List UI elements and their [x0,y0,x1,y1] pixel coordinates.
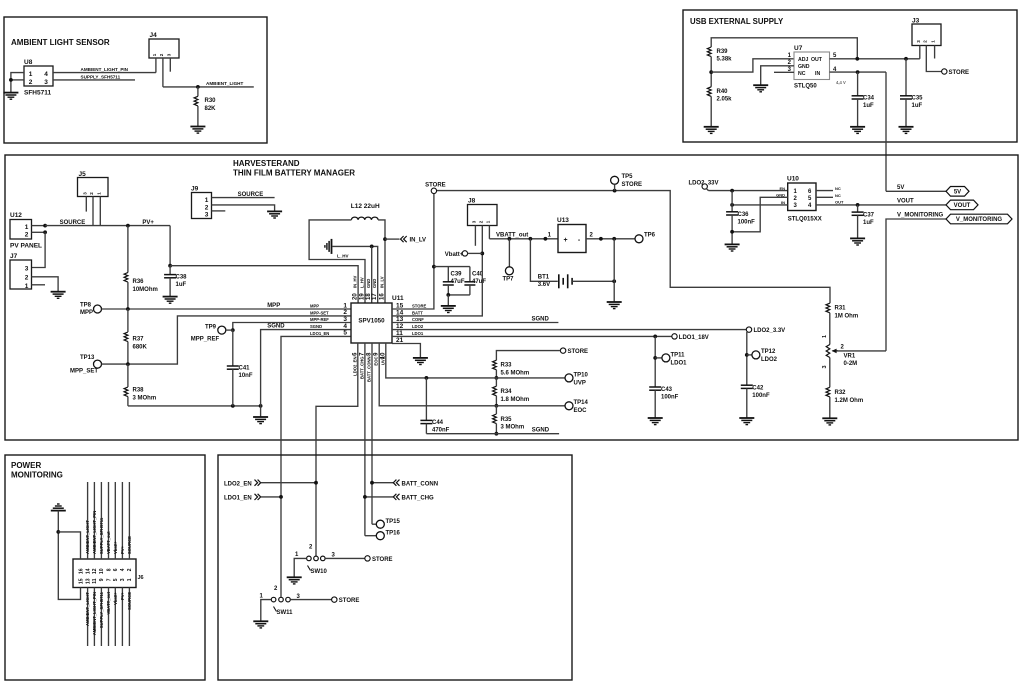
svg-text:BATT_CHG: BATT_CHG [359,357,364,380]
svg-text:LDO2_3.3V: LDO2_3.3V [754,328,786,334]
wire J5 pin1 [99,197,101,226]
svg-text:U12: U12 [10,212,22,219]
svg-text:L_HV: L_HV [337,254,349,259]
junction [508,237,512,241]
svg-text:STORE: STORE [339,598,360,604]
junction [370,245,374,249]
wire net 5V [886,190,946,192]
test point TP7 [508,239,510,267]
wire J8 pin3 stub [474,226,476,246]
svg-text:TP14: TP14 [574,400,589,406]
test point TP5 STORE [611,176,619,184]
junction [599,237,603,241]
capacitor C35 1uF [905,59,907,96]
svg-text:SOURCE: SOURCE [238,192,264,198]
wire SGND rail [128,405,261,407]
svg-text:U11: U11 [392,295,404,302]
svg-text:AMBIENT LIGHT SENSOR: AMBIENT LIGHT SENSOR [11,38,110,47]
svg-text:1uF: 1uF [176,282,187,288]
svg-text:VBATT_out: VBATT_out [106,531,111,554]
svg-text:EOC: EOC [374,357,379,366]
svg-text:16: 16 [78,568,84,574]
test point TP10 / UVP [565,374,573,382]
junction [231,328,235,332]
test point TP6 [635,235,643,243]
wire STORE bus top [437,191,830,304]
wire J7 pin3 to U12 pin2 [32,232,46,267]
ground [850,238,865,245]
svg-text:15: 15 [78,578,84,584]
svg-text:TP16: TP16 [386,530,401,536]
resistor R37 680K [124,332,128,342]
svg-text:5.6 MOhm: 5.6 MOhm [501,370,530,376]
svg-text:2: 2 [25,232,29,239]
svg-text:5.38k: 5.38k [717,57,733,63]
svg-text:EN: EN [779,186,785,191]
wire J3 pin3 [919,46,921,59]
capacitor C41 10nF [232,330,234,366]
svg-text:1uF: 1uF [912,103,923,109]
test point TP16 [365,535,377,537]
capacitor C40 47uF [469,267,471,282]
junction [9,78,13,82]
chevron net IN_LV [385,238,400,240]
svg-text:IN: IN [815,71,820,77]
switch SW11 label [274,607,277,612]
svg-text:PV+: PV+ [120,591,125,600]
wire J3 pin2 to STORE [926,46,941,72]
svg-text:EOC: EOC [574,408,588,414]
junction [126,362,130,366]
wire J9 pin1 net SOURCE [212,197,275,199]
svg-text:SW11: SW11 [277,610,294,616]
svg-text:3: 3 [25,266,29,273]
switch SW10 [307,556,312,561]
svg-text:1: 1 [25,224,29,231]
wire U7 pin5 output to J3 [830,58,920,60]
svg-text:C43: C43 [661,387,673,393]
ground [607,302,622,309]
svg-text:2: 2 [29,79,33,86]
section box: control / switches [218,455,572,680]
svg-text:SGND: SGND [532,316,550,322]
wire net VBATT_out [489,238,558,240]
resistor R35 3 MOhm [493,414,497,424]
ground (rotated) for U11 GND pins [325,239,332,254]
ground [753,85,768,92]
resistor R38 3 MOhm [124,387,128,397]
junction [314,481,318,485]
wire U7 pin3 stub [774,71,794,73]
wire U8 pin1 to ground rail [11,73,24,93]
capacitor C37 1uF [857,205,859,212]
wire U11 pin8 BATT_CONN down [371,343,373,524]
wire U7 pin4 IN [830,71,887,73]
svg-text:SUPPLY_SFH5711: SUPPLY_SFH5711 [99,591,104,628]
svg-text:9: 9 [99,578,105,581]
wire J9 pin2 to ground [212,205,275,212]
svg-text:470nF: 470nF [432,428,450,434]
svg-text:MPP: MPP [310,304,319,309]
wire U11 pin4 SGND [261,330,351,406]
svg-text:1M Ohm: 1M Ohm [835,313,859,319]
svg-text:MPP_REF: MPP_REF [191,337,220,343]
wire U11 pin21 to ground [392,344,420,358]
test point TP15 [372,523,376,525]
svg-text:STORE: STORE [412,304,427,309]
svg-text:3 MOhm: 3 MOhm [133,395,157,401]
net bubble STORE [942,69,947,74]
wire ground branch to pin16 [58,532,80,559]
svg-text:47uF: 47uF [472,279,486,285]
svg-text:HARVESTERAND: HARVESTERAND [233,159,300,168]
svg-text:U8: U8 [24,59,33,66]
svg-text:J9: J9 [191,186,199,193]
wire U7 pin2 GND [761,66,794,85]
svg-text:R39: R39 [717,49,729,55]
svg-text:5V: 5V [954,190,961,196]
svg-text:IN_LV: IN_LV [380,276,385,288]
junction [544,237,548,241]
svg-text:5: 5 [343,330,347,337]
resistor R39 5.38k [707,47,711,57]
svg-text:NC: NC [835,186,841,191]
wire LDO1 down [654,336,656,387]
ground [648,418,663,425]
svg-text:THIN FILM BATTERY MANAGER: THIN FILM BATTERY MANAGER [233,169,355,178]
wire net AMBIENT_LIGHT_PIN [53,72,156,74]
svg-text:BATT_CONN: BATT_CONN [367,357,372,383]
wire net AMBIENT_LIGHT [163,86,254,88]
svg-text:680K: 680K [133,344,148,350]
svg-text:SOURCE: SOURCE [127,536,132,554]
flag V_MONITORING [946,214,1012,224]
junction [56,530,60,534]
svg-text:3.6V: 3.6V [538,282,550,288]
svg-text:LDO2: LDO2 [761,357,778,363]
svg-text:AMBIENT_LIGHT_PIN: AMBIENT_LIGHT_PIN [92,592,97,635]
potentiometer VR1 0-2M [826,345,830,358]
svg-text:R36: R36 [133,279,145,285]
wire STORE to R33 [496,351,560,361]
junction [904,57,908,61]
junction [730,230,734,234]
svg-text:BATT: BATT [412,310,423,315]
wire U10 pin2 GND route [732,197,788,232]
svg-text:4: 4 [120,568,126,571]
svg-text:R31: R31 [835,306,847,312]
svg-text:19: 19 [360,293,366,300]
svg-text:U10: U10 [787,176,799,183]
svg-text:R33: R33 [501,363,513,369]
wire net SOURCE / PV+ [45,225,170,227]
svg-text:MPP_SET: MPP_SET [70,369,98,375]
junction [856,70,860,74]
wire GND pins 17,18 [332,246,378,303]
svg-text:1.2M Ohm: 1.2M Ohm [835,398,864,404]
junction [168,264,172,268]
svg-text:R38: R38 [133,388,145,394]
wire R39/R40 node to U7 pin1 [711,59,794,72]
svg-text:TP10: TP10 [574,372,589,378]
wire U13 pin2 to TP6 [586,238,635,240]
svg-text:3: 3 [205,211,209,218]
wire SGND bottom rail [426,433,559,435]
svg-text:IN_HV: IN_HV [353,275,358,288]
svg-text:Vbatt+: Vbatt+ [445,252,464,258]
junction [745,353,749,357]
capacitor C43 100nF [649,386,661,388]
svg-text:U13: U13 [557,217,569,224]
connector J6 header [73,559,136,588]
svg-text:R40: R40 [717,89,729,95]
svg-text:3: 3 [120,578,126,581]
svg-text:11: 11 [92,578,98,584]
junction [730,189,734,193]
wire U11 pin12 LDO2 rail [392,329,746,331]
svg-text:LDO1_18V: LDO1_18V [679,335,709,341]
svg-text:7: 7 [106,578,112,581]
svg-text:VBATT_out: VBATT_out [106,591,111,614]
svg-text:TP5: TP5 [622,174,634,180]
wire net SUPPLY_SFH5711 [53,79,135,81]
svg-text:PV+: PV+ [142,220,154,226]
svg-text:GND: GND [366,279,371,288]
wire U10 OUT to VOUT flag [816,204,946,206]
svg-text:C36: C36 [738,212,750,218]
wire J7 pin1 stub [32,284,46,286]
svg-text:1uF: 1uF [863,220,874,226]
svg-text:TP15: TP15 [386,519,401,525]
svg-text:ADJ: ADJ [798,57,808,63]
svg-text:3: 3 [44,79,48,86]
junction [612,237,616,241]
svg-text:1: 1 [822,335,828,338]
svg-text:STLQ50: STLQ50 [794,84,817,90]
wire U11 pin13 CONF / SGND [392,322,558,324]
svg-text:SGND: SGND [267,323,285,329]
svg-text:0-2M: 0-2M [844,361,858,367]
switch SW10 label [308,566,311,571]
svg-text:V_MONITORING: V_MONITORING [956,217,1003,223]
svg-text:2: 2 [205,204,209,211]
svg-text:1uF: 1uF [863,103,874,109]
resistor R30 82K [197,87,199,96]
svg-text:SOURCE: SOURCE [127,592,132,610]
net bubble STORE (divider) [560,348,565,353]
svg-text:V_MONITORING: V_MONITORING [897,213,944,219]
junction [259,404,263,408]
wire L12 right to IN_LV pin16 [378,220,385,303]
svg-text:MPP-REF: MPP-REF [310,317,329,322]
wire SW11 pin1 to ground [261,600,272,622]
svg-text:LDO1_EN: LDO1_EN [224,496,252,502]
ground [3,93,18,100]
junction [370,481,374,485]
svg-text:10: 10 [99,568,105,574]
junction [709,70,713,74]
svg-text:100nF: 100nF [661,395,679,401]
section box: USB EXTERNAL SUPPLY [683,10,1017,142]
wire J8 pin2 / U11 BATT rail [392,226,482,316]
svg-text:STORE: STORE [372,557,393,563]
svg-text:R37: R37 [133,337,145,343]
svg-text:+: + [563,237,567,244]
net bubble STORE [431,188,436,193]
svg-text:TP8: TP8 [80,303,92,309]
wire J9 pin3 stub [212,210,226,212]
capacitor C34 1uF [857,72,859,96]
svg-text:PV+: PV+ [120,545,125,554]
svg-text:10MOhm: 10MOhm [133,287,158,293]
ground [739,418,754,425]
svg-text:C35: C35 [912,96,924,102]
junction [446,293,450,297]
svg-text:LDO2: LDO2 [412,324,424,329]
wire to U11 pin20 [170,266,358,303]
svg-text:CONF: CONF [412,317,424,322]
svg-text:R35: R35 [501,417,513,423]
svg-text:TP6: TP6 [644,233,656,239]
capacitor C44 470nF [425,378,427,421]
svg-text:4: 4 [44,71,48,78]
svg-text:OUT: OUT [811,57,823,63]
junction [231,404,235,408]
svg-text:3 MOhm: 3 MOhm [501,425,525,431]
wire U10 pin3 IN [732,204,788,206]
wire PV+ node to C38 and U11 IN_HV [169,226,171,266]
net stub BATT_CONN [372,482,393,484]
net stub BATT_CHG [365,496,393,498]
ground [260,406,262,417]
ground [51,292,66,299]
junction [855,57,859,61]
svg-text:IN_LV: IN_LV [410,238,427,244]
svg-text:C38: C38 [176,275,188,281]
svg-text:BATT_CHG: BATT_CHG [402,496,435,502]
svg-text:VBATT_out: VBATT_out [496,232,528,238]
wire pin18 [371,246,373,303]
junction [529,237,533,241]
ground [704,127,719,134]
svg-text:100nF: 100nF [738,220,756,226]
svg-text:SOURCE: SOURCE [60,220,86,226]
flag 5V [946,187,969,197]
junction [495,432,499,436]
svg-text:C44: C44 [432,420,444,426]
wire U11 pin5 LDO1_EN down to SW11 [281,336,351,597]
svg-text:BT1: BT1 [538,274,550,280]
ground [163,297,178,304]
svg-text:1: 1 [29,71,33,78]
resistor R34 1.8MOhm [493,386,497,396]
junction [856,203,860,207]
wire J4 pin2 to AMBIENT_LIGHT [162,58,164,87]
svg-text:UVP: UVP [574,380,586,386]
svg-text:STLQ015XX: STLQ015XX [788,217,822,223]
section box: POWER MONITORING [5,455,205,680]
svg-text:R32: R32 [835,390,847,396]
wires J6 top pins [87,482,89,559]
junction [613,189,617,193]
svg-text:AMBIENT_LIGHT: AMBIENT_LIGHT [206,81,243,86]
svg-text:SFH5711: SFH5711 [24,90,51,97]
net bubble LDO2_3.3V [746,327,751,332]
junction [495,404,499,408]
svg-text:STORE: STORE [568,349,589,355]
wire net MPP [102,308,352,310]
svg-text:C37: C37 [863,212,875,218]
battery BT1 3.6V [530,239,557,281]
svg-text:R34: R34 [501,389,513,395]
wire L12 left to L_HV pin19 [309,220,365,303]
svg-text:STORE: STORE [622,182,643,188]
svg-text:AMBIENT_LIGHT_PIN: AMBIENT_LIGHT_PIN [81,67,129,72]
svg-text:20: 20 [353,293,359,300]
resistor R36 10MOhm [127,226,129,273]
svg-text:UVP: UVP [380,356,385,365]
junction [480,252,484,256]
junction [126,307,130,311]
svg-text:VR1: VR1 [844,354,856,360]
capacitor C38 1uF [169,266,171,275]
svg-text:3: 3 [822,365,828,368]
ground [413,358,428,365]
svg-text:LDO2_EN: LDO2_EN [352,357,357,376]
svg-text:C42: C42 [752,385,764,391]
switch SW11 [271,597,276,602]
svg-text:LDO2_EN: LDO2_EN [224,481,252,487]
wire LDO2 down [746,332,748,385]
svg-text:VOUT: VOUT [954,203,971,209]
wires J6 bottom pins [87,588,89,647]
svg-text:1.8 MOhm: 1.8 MOhm [501,397,530,403]
wire J4 pin1 [155,58,157,73]
svg-text:MONITORING: MONITORING [11,471,63,480]
svg-text:82K: 82K [205,106,217,112]
svg-text:NC: NC [798,71,806,77]
svg-text:GND: GND [798,64,810,70]
ground (inverted) [51,510,66,512]
net bubble STORE [332,597,337,602]
wire MPP_SET to U11 pin2 [102,316,352,364]
wire U10 NC stubs [816,190,833,192]
svg-text:SGND: SGND [310,324,322,329]
wire top rail [711,38,857,59]
svg-text:MPP: MPP [80,310,93,316]
svg-text:TP12: TP12 [761,349,776,355]
svg-text:SUPPLY_SFH5711: SUPPLY_SFH5711 [81,74,121,79]
svg-text:4,4 V: 4,4 V [836,80,846,85]
svg-text:LDO1: LDO1 [412,331,424,336]
junction [612,279,616,283]
svg-text:AMBIENT_LIGHT: AMBIENT_LIGHT [85,592,90,626]
svg-text:AMBIENT_LIGHT: AMBIENT_LIGHT [85,520,90,554]
svg-text:1: 1 [25,283,29,290]
junction [495,376,499,380]
wire J5 pin2 [92,197,94,226]
svg-text:5: 5 [113,578,119,581]
wire SW11 pin3 to STORE [290,599,331,601]
svg-text:PV PANEL: PV PANEL [10,243,42,250]
wire U11 pin15 STORE up [392,193,434,309]
svg-text:BATT_CONN: BATT_CONN [402,481,439,487]
test point TP14 / EOC [565,402,573,410]
svg-text:MPP-SET: MPP-SET [310,310,329,315]
wire battery minus to ground [613,239,615,302]
ground [267,211,282,218]
ground [850,127,865,134]
